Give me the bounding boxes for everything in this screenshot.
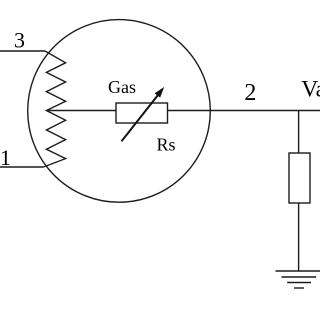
svg-text:1: 1: [0, 145, 11, 170]
svg-text:Gas: Gas: [108, 77, 136, 97]
svg-text:Rs: Rs: [157, 134, 176, 154]
svg-text:Va: Va: [301, 77, 320, 103]
svg-text:3: 3: [14, 28, 25, 53]
svg-text:2: 2: [244, 80, 256, 106]
